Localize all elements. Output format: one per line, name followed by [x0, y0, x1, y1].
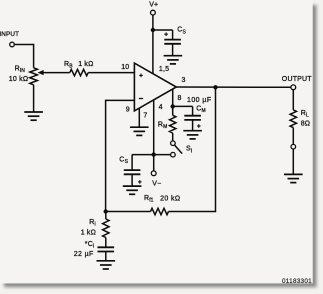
svg-text:20 kΩ: 20 kΩ — [160, 196, 180, 203]
svg-text:01183301: 01183301 — [282, 278, 312, 285]
svg-text:1,5: 1,5 — [159, 66, 169, 73]
svg-text:8Ω: 8Ω — [301, 120, 311, 127]
svg-text:22 µF: 22 µF — [74, 251, 94, 258]
svg-text:7: 7 — [143, 112, 147, 119]
svg-text:1 kΩ: 1 kΩ — [78, 61, 93, 68]
svg-text:3: 3 — [182, 77, 186, 84]
svg-text:V+: V+ — [149, 2, 158, 9]
svg-text:8: 8 — [178, 95, 182, 102]
svg-text:OUTPUT: OUTPUT — [282, 76, 313, 83]
svg-text:100 µF: 100 µF — [187, 97, 212, 104]
svg-text:9: 9 — [126, 107, 130, 114]
svg-text:10: 10 — [121, 64, 129, 71]
svg-text:V−: V− — [152, 181, 161, 188]
svg-text:10 kΩ: 10 kΩ — [9, 76, 28, 83]
svg-text:4: 4 — [159, 104, 163, 111]
svg-text:1 kΩ: 1 kΩ — [81, 229, 96, 236]
svg-text:INPUT: INPUT — [0, 31, 19, 38]
